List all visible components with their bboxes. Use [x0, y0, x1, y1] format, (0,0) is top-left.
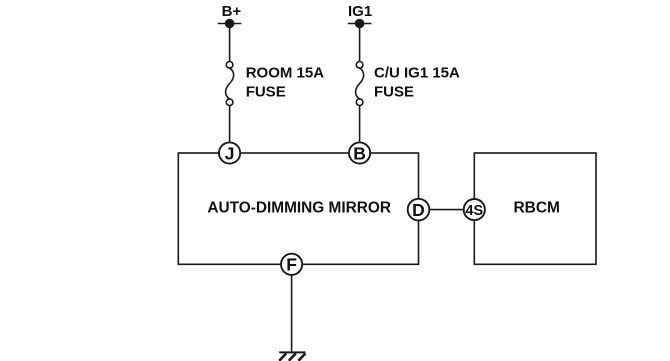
pin 4S: [464, 199, 485, 220]
pin F: [281, 254, 302, 275]
node B+ terminal crossbar: [218, 23, 242, 25]
svg-text:C/U IG1 15A: C/U IG1 15A: [374, 64, 460, 81]
pin B: [349, 142, 370, 163]
svg-text:IG1: IG1: [348, 3, 372, 20]
box RBCM: [474, 153, 596, 264]
wire F to ground: [291, 274, 293, 352]
svg-text:AUTO-DIMMING MIRROR: AUTO-DIMMING MIRROR: [207, 199, 391, 216]
wire B+ to fuse1: [229, 24, 231, 63]
wire fuse2 to B: [359, 105, 361, 143]
node IG1 terminal crossbar: [348, 23, 372, 25]
svg-text:J: J: [225, 143, 235, 163]
svg-text:D: D: [412, 200, 425, 220]
svg-text:RBCM: RBCM: [513, 199, 560, 216]
svg-text:FUSE: FUSE: [374, 83, 414, 100]
node B+ dot: [225, 19, 235, 29]
wire fuse1 to J: [229, 105, 231, 143]
node IG1 dot: [355, 19, 365, 29]
svg-text:4S: 4S: [465, 203, 483, 219]
svg-text:B: B: [353, 143, 366, 163]
svg-text:F: F: [286, 255, 297, 275]
fuse C/U IG1 15A: [356, 62, 364, 106]
pin D: [408, 199, 430, 221]
svg-text:FUSE: FUSE: [246, 83, 286, 100]
svg-text:B+: B+: [222, 3, 242, 20]
ground: [279, 352, 305, 360]
wire IG1 to fuse2: [359, 24, 361, 63]
box AUTO-DIMMING MIRROR: [178, 153, 418, 264]
wire D to 4S: [428, 209, 465, 211]
svg-text:ROOM 15A: ROOM 15A: [246, 64, 325, 81]
pin J: [219, 142, 240, 163]
fuse ROOM 15A: [226, 62, 234, 106]
